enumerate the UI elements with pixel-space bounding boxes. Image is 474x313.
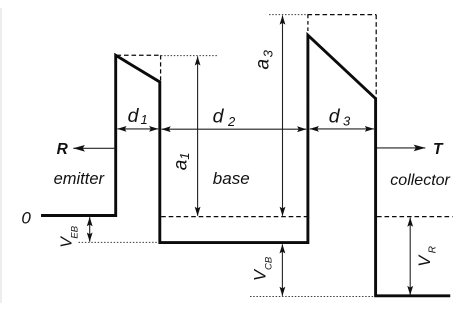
svg-text:d3: d3	[329, 106, 351, 129]
dotted line: collector level extension left	[250, 296, 375, 298]
dimension arrow d3	[310, 128, 374, 130]
svg-text:d1: d1	[128, 105, 148, 127]
dimension arrow V_EB	[89, 217, 91, 241]
dimension arrow d1	[117, 128, 158, 130]
svg-text:0: 0	[21, 209, 31, 228]
dimension arrow a3	[282, 16, 284, 216]
dimension arrow V_R	[409, 218, 411, 295]
svg-text:base: base	[213, 169, 250, 188]
svg-text:emitter: emitter	[54, 170, 106, 188]
dimension arrow a1	[197, 56, 199, 215]
wire: potential profile polyline (emitter level, barrier1, base, barrier2, collector level)	[43, 35, 449, 296]
dimension arrow V_CB	[281, 244, 283, 295]
dotted extension: barrier1 top level to a1 arrow	[161, 55, 218, 57]
arrow T (transmission direction)	[377, 147, 425, 149]
svg-text:collector: collector	[390, 172, 450, 189]
dashed line: zero level in base	[161, 216, 306, 218]
dotted line: base bottom level in emitter region	[79, 241, 160, 243]
svg-text:VCB: VCB	[252, 256, 275, 281]
svg-text:T: T	[433, 141, 444, 158]
svg-text:VEB: VEB	[59, 225, 81, 248]
dashed line: barrier1 right corner vertical	[160, 55, 162, 81]
scan edge artifact	[0, 8, 2, 303]
dimension arrow d2	[162, 128, 307, 130]
dotted extension: barrier2 extrapolated top, left part	[269, 14, 308, 16]
dashed line: zero level in collector	[377, 216, 453, 218]
svg-text:a1: a1	[170, 152, 192, 170]
dashed line: barrier1 top level	[117, 54, 162, 56]
svg-text:R: R	[57, 141, 69, 158]
svg-text:VR: VR	[416, 246, 439, 267]
svg-text:d2: d2	[213, 106, 236, 130]
svg-text:a3: a3	[252, 49, 275, 69]
arrow R (reflection direction)	[73, 147, 115, 149]
dashed line: barrier2 left corner vertical	[307, 15, 309, 34]
dashed line: barrier2 right corner vertical	[375, 15, 377, 98]
dashed line: barrier2 extrapolated top	[308, 14, 377, 16]
